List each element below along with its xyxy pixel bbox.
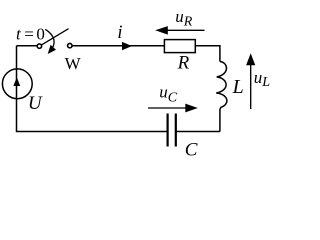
svg-text:U: U	[28, 93, 43, 114]
svg-text:C: C	[185, 140, 198, 161]
switch closing arrowhead	[48, 45, 56, 54]
wire switch to resistor	[72, 45, 164, 47]
u_L arrow	[250, 64, 252, 109]
u_C arrow	[148, 107, 186, 109]
wire top left to switch	[17, 45, 38, 47]
wire resistor to right corner down to coil	[195, 46, 220, 62]
svg-text:L: L	[232, 76, 244, 98]
switch terminal left	[37, 44, 41, 48]
switch blade	[42, 29, 69, 45]
svg-text:t=0: t=0	[16, 25, 45, 44]
svg-text:W: W	[65, 54, 82, 73]
resistor R	[164, 40, 195, 53]
voltage source arrowhead	[13, 77, 20, 86]
inductor L coil	[216, 62, 227, 132]
current i arrowhead	[122, 42, 132, 50]
capacitor C plates	[168, 114, 176, 147]
voltage source U circle	[2, 69, 32, 99]
wire left loop: left vertical and bottom left	[17, 46, 167, 132]
switch closing arc	[45, 29, 54, 47]
wire coil bottom to capacitor	[177, 131, 220, 133]
svg-text:i: i	[117, 23, 122, 43]
switch terminal right	[68, 43, 72, 47]
svg-text:R: R	[177, 53, 190, 74]
u_R arrow	[160, 29, 205, 31]
